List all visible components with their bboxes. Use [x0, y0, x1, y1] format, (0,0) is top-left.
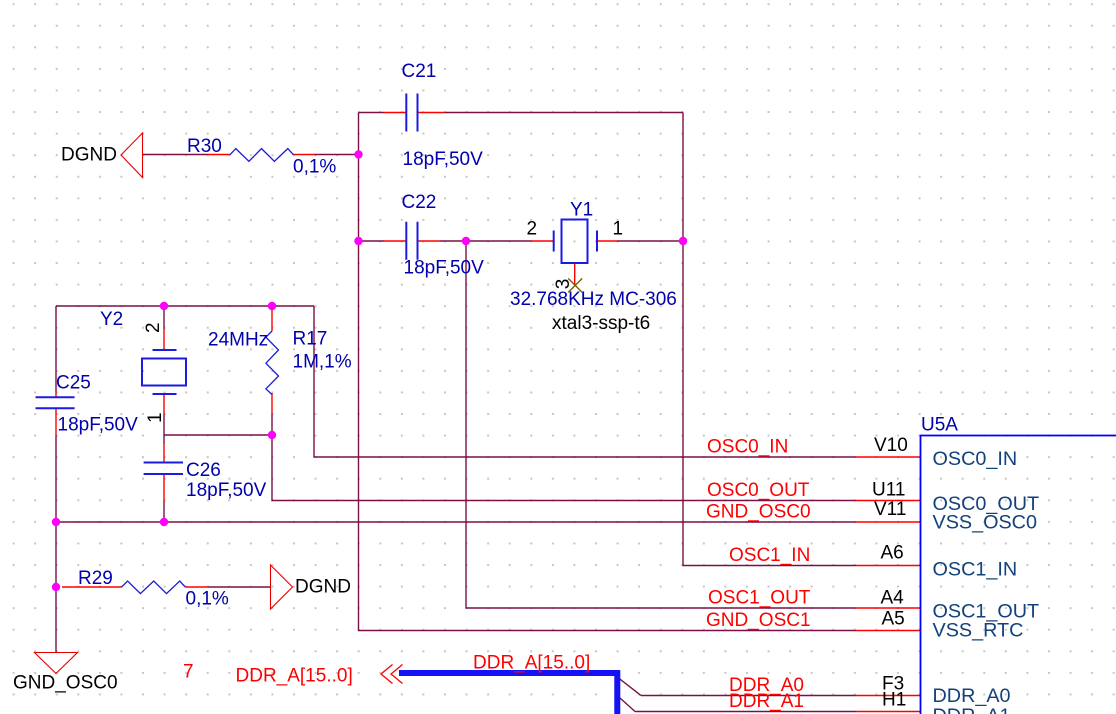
stub C21 left	[384, 112, 406, 114]
wire C22 row	[359, 240, 684, 242]
svg-text:DDR_A0: DDR_A0	[933, 685, 1011, 707]
stub GND_OSC1 pin A5	[856, 630, 921, 632]
junction C22/OSC1_OUT	[462, 237, 470, 245]
svg-text:C26: C26	[186, 460, 221, 481]
stub Y1 pin3	[574, 263, 576, 284]
crystal Y1	[554, 220, 597, 264]
stub R17 bottom	[271, 393, 273, 414]
no-connect X on Y1 pin3	[568, 278, 582, 292]
wire OSC0_IN net	[314, 306, 856, 457]
svg-text:2: 2	[527, 219, 538, 240]
svg-text:OSC1_OUT: OSC1_OUT	[708, 588, 811, 609]
svg-text:1: 1	[613, 219, 624, 240]
wire DDR_A1 row	[635, 711, 856, 713]
svg-text:1: 1	[145, 412, 166, 423]
svg-text:C21: C21	[402, 61, 437, 82]
svg-text:R30: R30	[187, 136, 222, 157]
svg-text:18pF,50V: 18pF,50V	[404, 258, 485, 279]
svg-text:OSC1_IN: OSC1_IN	[933, 559, 1018, 581]
svg-text:Y2: Y2	[100, 309, 123, 330]
stub C26 top	[163, 444, 165, 463]
junction R17 bottom	[268, 431, 276, 439]
svg-text:VSS_RTC: VSS_RTC	[933, 620, 1024, 642]
stub C22 left	[384, 240, 406, 242]
capacitor C25	[36, 397, 75, 408]
wire R17 branch	[271, 414, 273, 435]
resistor R30	[230, 149, 294, 162]
svg-text:2: 2	[143, 322, 164, 333]
svg-text:32.768KHz MC-306: 32.768KHz MC-306	[510, 289, 677, 310]
stub Y2 pin2	[163, 329, 165, 350]
stub C25 top	[55, 392, 57, 398]
junction R17 top	[268, 302, 276, 310]
svg-text:18pF,50V: 18pF,50V	[58, 415, 139, 436]
stub R29 right	[185, 586, 207, 588]
bus DDR_A[15..0]	[399, 673, 617, 714]
stub R17 top	[271, 309, 273, 331]
PIN STUBS (red)	[56, 113, 921, 712]
stub R29 left	[62, 586, 122, 588]
svg-text:DGND: DGND	[61, 145, 117, 166]
ground GND_OSC0	[35, 653, 78, 674]
svg-text:24MHz: 24MHz	[208, 330, 268, 351]
junction C22 left	[354, 237, 362, 245]
capacitor C22	[406, 222, 417, 260]
stub DDR_A0 pin F3	[856, 695, 921, 697]
svg-text:C22: C22	[402, 192, 437, 213]
svg-text:V10: V10	[874, 435, 908, 456]
junction R29	[52, 583, 60, 591]
stub R30 left	[208, 154, 230, 156]
wire top row C21	[359, 112, 684, 114]
svg-text:V11: V11	[874, 499, 906, 520]
svg-text:3: 3	[553, 279, 574, 290]
junction GND_OSC0 left	[52, 518, 60, 526]
bus entry chevrons	[381, 665, 403, 684]
stub GND_OSC0 pin V11	[856, 521, 921, 523]
wire Y2 top row	[56, 305, 314, 307]
wire Y2 crystal branch	[163, 306, 165, 522]
power symbol DGND (left, arrow pointing left)	[121, 133, 143, 178]
svg-text:OSC1_IN: OSC1_IN	[729, 545, 810, 566]
stub DDR_A1 pin H1	[856, 711, 921, 713]
junction Y2 top	[160, 302, 168, 310]
svg-text:A4: A4	[881, 588, 905, 609]
svg-text:0,1%: 0,1%	[293, 157, 336, 178]
svg-text:GND_OSC0: GND_OSC0	[13, 673, 118, 694]
svg-text:VSS_OSC0: VSS_OSC0	[933, 512, 1037, 534]
wire left vertical GND_OSC1 net	[359, 113, 856, 631]
svg-text:0,1%: 0,1%	[186, 589, 229, 610]
svg-text:A6: A6	[881, 543, 904, 564]
power symbol DGND (right, arrow pointing right)	[271, 565, 293, 609]
svg-text:GND_OSC0: GND_OSC0	[706, 502, 811, 523]
svg-text:U11: U11	[872, 480, 905, 501]
svg-text:OSC0_OUT: OSC0_OUT	[707, 480, 810, 501]
junction C26 bottom	[160, 518, 168, 526]
wire left vertical C25 branch	[55, 306, 57, 653]
svg-text:Y1: Y1	[570, 200, 593, 221]
stub OSC0_OUT pin U11	[856, 500, 921, 502]
svg-text:1M,1%: 1M,1%	[293, 352, 352, 373]
svg-text:GND_OSC1: GND_OSC1	[706, 610, 811, 631]
stub Y2 pin1	[163, 394, 165, 414]
junction R30/GND_OSC1	[354, 150, 362, 158]
stub C22 right	[418, 240, 441, 242]
wire OSC1_OUT vertical	[466, 241, 856, 608]
wire DDR_A0 row	[641, 695, 856, 697]
wire OSC0_OUT net	[272, 435, 856, 501]
crystal Y2	[142, 350, 186, 394]
svg-text:18pF,50V: 18pF,50V	[186, 480, 267, 501]
resistor R29	[122, 581, 186, 594]
bus tap DDR_A1	[618, 697, 635, 712]
wire R29 row	[207, 586, 270, 588]
stub OSC1_IN pin A6	[856, 565, 921, 567]
wire row 435	[164, 434, 272, 436]
wire GND_OSC0 row	[56, 521, 856, 523]
svg-text:R29: R29	[78, 568, 113, 589]
svg-text:DDR_A[15..0]: DDR_A[15..0]	[236, 666, 353, 687]
stub C21 right	[418, 112, 445, 114]
svg-text:OSC0_IN: OSC0_IN	[707, 437, 788, 458]
svg-text:7: 7	[183, 662, 194, 683]
svg-text:18pF,50V: 18pF,50V	[403, 149, 484, 170]
svg-text:R17: R17	[293, 329, 328, 350]
svg-text:OSC0_IN: OSC0_IN	[933, 448, 1018, 470]
stub OSC0_IN pin V10	[856, 456, 921, 458]
stub Y1 pin2	[532, 240, 554, 242]
svg-text:H1: H1	[882, 690, 906, 711]
stub R30 right	[294, 154, 315, 156]
svg-text:DDR_A[15..0]: DDR_A[15..0]	[473, 653, 590, 674]
stub OSC1_OUT pin A4	[856, 607, 921, 609]
svg-text:DDR_A1: DDR_A1	[933, 705, 1011, 714]
chip U5A outline	[921, 436, 1116, 714]
resistor R17	[266, 331, 279, 395]
wire R30 row	[143, 154, 359, 156]
stub Y1 pin1	[597, 240, 617, 242]
wire right vertical OSC1_IN net	[683, 113, 856, 566]
capacitor C26	[144, 463, 183, 475]
svg-text:C25: C25	[56, 373, 91, 394]
svg-text:xtal3-ssp-t6: xtal3-ssp-t6	[552, 313, 650, 334]
bus tap DDR_A0	[618, 678, 641, 696]
capacitor C21	[406, 94, 417, 132]
svg-text:A5: A5	[882, 609, 905, 630]
stub C25 bottom	[55, 408, 57, 435]
svg-text:DGND: DGND	[295, 577, 351, 598]
svg-text:U5A: U5A	[921, 415, 958, 436]
stub C26 bottom	[163, 474, 165, 501]
junction Y1 right	[679, 237, 687, 245]
svg-text:DDR_A1: DDR_A1	[729, 691, 804, 712]
